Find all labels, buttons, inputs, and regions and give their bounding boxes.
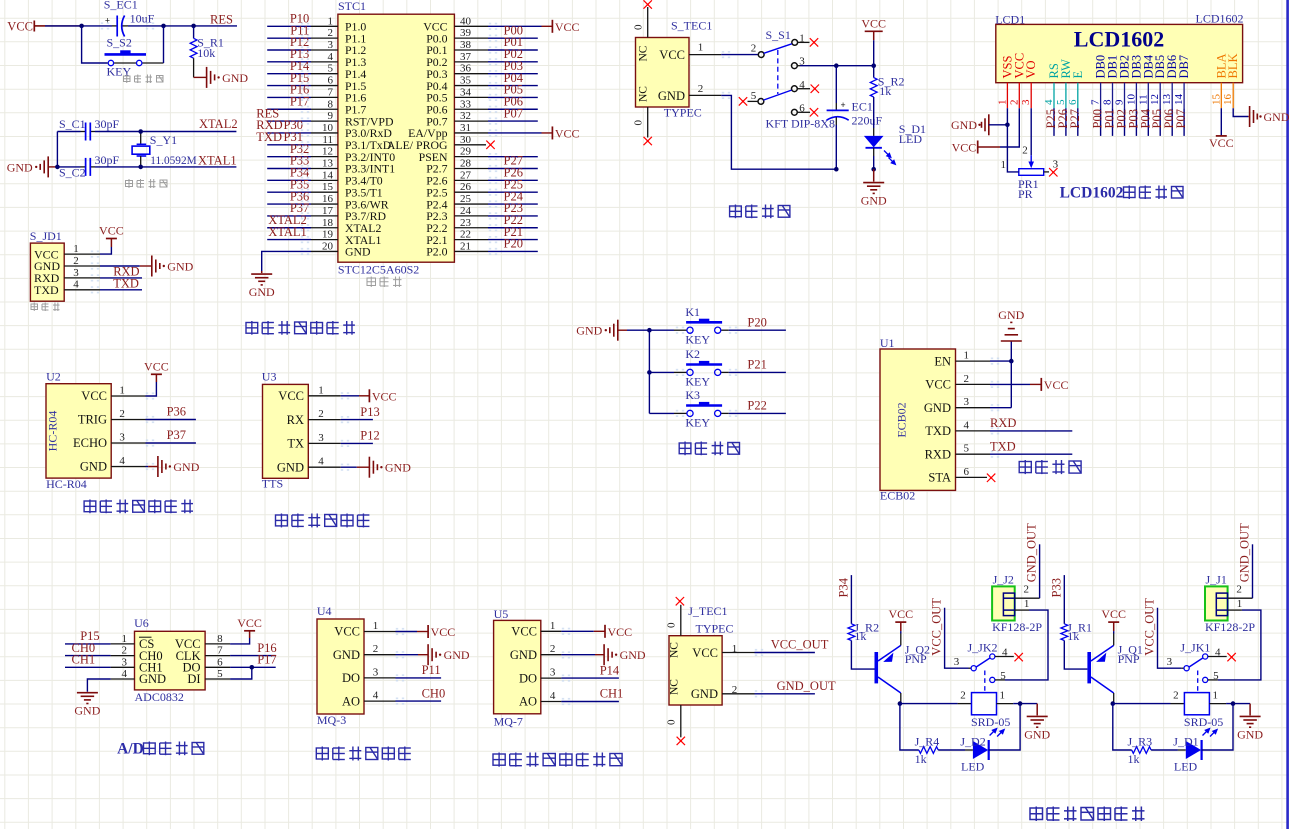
svg-text:K3: K3 bbox=[685, 388, 700, 402]
resistor S_R2 1k bbox=[870, 66, 904, 99]
U1 pin 1 EN wire to GND bbox=[956, 350, 1012, 362]
S_S1 pin 1 no-connect bbox=[797, 33, 818, 47]
resistor J_R4 1k bbox=[915, 735, 965, 766]
svg-text:GND: GND bbox=[333, 648, 360, 662]
svg-text:VCC: VCC bbox=[555, 126, 580, 140]
wire relay coil pin 1 to GND bbox=[1209, 690, 1250, 704]
svg-text:PNP: PNP bbox=[1118, 652, 1140, 666]
svg-text:1k: 1k bbox=[1067, 629, 1079, 643]
junction LED branch bbox=[1018, 701, 1023, 706]
svg-text:P20: P20 bbox=[504, 237, 523, 251]
power port VCC (LCD) bbox=[952, 140, 1000, 154]
STC1 pins 28-21 with net labels P27-P20 bbox=[454, 154, 537, 253]
svg-text:2: 2 bbox=[550, 643, 556, 655]
svg-text:TRIG: TRIG bbox=[78, 413, 107, 427]
svg-text:MQ-3: MQ-3 bbox=[317, 713, 346, 727]
STC1 left pins 1-8 with net labels P10-P17 bbox=[267, 12, 338, 111]
LCD1 net wires pins 4-6 with labels P25 P26 P27 bbox=[1044, 108, 1082, 136]
svg-text:GND: GND bbox=[444, 648, 470, 662]
wire VCC to S_EC1 and RES bbox=[34, 25, 237, 27]
svg-text:35: 35 bbox=[460, 75, 472, 87]
terminal block J_J2 KF128-2P body bbox=[992, 573, 1042, 635]
svg-text:38: 38 bbox=[460, 39, 472, 51]
junction crystal top bbox=[138, 129, 143, 134]
svg-text:RX: RX bbox=[287, 413, 304, 427]
svg-text:TYPEC: TYPEC bbox=[696, 622, 734, 636]
U4 pin 3 wire with net label P11 bbox=[364, 663, 441, 678]
S_S1 pin 3 wire to VCC node bbox=[797, 56, 874, 68]
svg-text:J_D1: J_D1 bbox=[1173, 735, 1198, 749]
svg-text:P21: P21 bbox=[747, 358, 766, 372]
svg-text:2: 2 bbox=[960, 690, 966, 702]
U4 pin 4 wire with net label CH0 bbox=[364, 686, 445, 701]
svg-text:CH1: CH1 bbox=[72, 653, 96, 667]
svg-text:J_J2: J_J2 bbox=[993, 573, 1014, 587]
U6 pin 2 wire with net label CH0 bbox=[65, 641, 135, 657]
LCD1 pin stubs and pin numbers 1-16 bbox=[996, 83, 1234, 109]
svg-text:VCC: VCC bbox=[925, 378, 951, 392]
svg-text:LED: LED bbox=[1174, 760, 1198, 774]
svg-text:4: 4 bbox=[328, 51, 334, 63]
junction DO/DI bbox=[250, 665, 255, 670]
svg-text:EC1: EC1 bbox=[852, 99, 873, 113]
svg-text:TXD: TXD bbox=[990, 439, 1016, 453]
svg-text:KEY: KEY bbox=[685, 332, 710, 346]
svg-text:P33: P33 bbox=[1049, 578, 1063, 597]
svg-text:HC-R04: HC-R04 bbox=[46, 411, 60, 452]
svg-text:TXD: TXD bbox=[34, 283, 59, 297]
svg-text:31: 31 bbox=[460, 122, 471, 134]
U6 pin 6 DO wire with net label P17 bbox=[205, 653, 277, 669]
U3 pin 2 wire with net label P13 bbox=[308, 405, 379, 420]
svg-text:VCC: VCC bbox=[7, 19, 33, 33]
svg-text:3: 3 bbox=[328, 39, 334, 51]
potentiometer PR1 PR bbox=[1001, 145, 1059, 202]
power port VCC (relay J_Q1) bbox=[1101, 607, 1126, 633]
ground GND (relay) bbox=[1024, 704, 1050, 742]
svg-text:U2: U2 bbox=[46, 369, 61, 383]
svg-text:TXD: TXD bbox=[256, 130, 282, 144]
svg-text:A/D: A/D bbox=[117, 741, 144, 758]
svg-text:1: 1 bbox=[964, 350, 970, 362]
power port VCC (alcohol sensor) bbox=[428, 625, 455, 639]
svg-text:2: 2 bbox=[1022, 145, 1028, 157]
wire GND to keys bbox=[627, 329, 649, 331]
svg-text:ADC0832: ADC0832 bbox=[135, 690, 184, 704]
wire XTAL1 net bbox=[140, 166, 236, 168]
LCD1 pin 15 wire to VCC bbox=[1209, 108, 1234, 150]
svg-text:U3: U3 bbox=[262, 370, 277, 384]
junction crystal left bottom bbox=[55, 165, 60, 170]
svg-text:1: 1 bbox=[328, 15, 334, 27]
J_JK2 pin 4 no-connect bbox=[1015, 653, 1023, 661]
svg-text:XTAL2: XTAL2 bbox=[199, 117, 238, 131]
J_JK2 pin 5 wire to J_J2 pin 1 bbox=[995, 610, 1048, 680]
svg-text:27: 27 bbox=[460, 169, 472, 181]
svg-text:2: 2 bbox=[119, 408, 125, 420]
crystal S_Y1 11.0592M bbox=[132, 132, 197, 167]
svg-text:12: 12 bbox=[1149, 94, 1161, 105]
svg-text:S_S2: S_S2 bbox=[107, 36, 132, 50]
svg-text:TX: TX bbox=[287, 437, 304, 451]
svg-text:1k: 1k bbox=[1128, 752, 1140, 766]
svg-text:P37: P37 bbox=[167, 428, 186, 442]
svg-text:NC: NC bbox=[668, 642, 680, 658]
svg-text:LCD1602: LCD1602 bbox=[1060, 184, 1124, 201]
svg-text:STC1: STC1 bbox=[338, 0, 366, 13]
power port VCC (reset circuit) bbox=[7, 19, 34, 33]
svg-text:VCC: VCC bbox=[1209, 136, 1234, 150]
svg-text:PNP: PNP bbox=[905, 652, 927, 666]
svg-text:5: 5 bbox=[217, 668, 223, 680]
wire XTAL2 net bbox=[140, 131, 236, 133]
U2 pin 3 wire with net label P37 bbox=[111, 428, 196, 443]
svg-text:GND: GND bbox=[74, 704, 100, 718]
svg-text:5: 5 bbox=[328, 63, 334, 75]
section title: voice output module (语音输出模块) bbox=[276, 514, 370, 528]
svg-text:STA: STA bbox=[928, 471, 951, 485]
svg-text:VCC: VCC bbox=[1044, 378, 1069, 392]
svg-text:VCC: VCC bbox=[431, 625, 456, 639]
svg-text:4: 4 bbox=[373, 690, 379, 702]
CO sensor U5 MQ-7 body bbox=[494, 607, 541, 729]
svg-text:16: 16 bbox=[322, 193, 334, 205]
U4 pin 1 wire to VCC bbox=[364, 620, 428, 632]
svg-text:GND: GND bbox=[7, 160, 33, 174]
power port VCC (bluetooth) bbox=[1041, 378, 1068, 392]
junction crystal bottom bbox=[138, 165, 143, 170]
J_TEC1 top pin 0 no-connect bbox=[666, 597, 685, 636]
STC1 pin 11 with net labels TXD P31 bbox=[256, 130, 338, 146]
J_J2 pin 2 wire with rotated net label GND_OUT bbox=[1015, 523, 1040, 598]
svg-text:SRD-05: SRD-05 bbox=[971, 715, 1010, 729]
U5 pin 2 wire to GND bbox=[541, 643, 604, 655]
svg-text:P14: P14 bbox=[600, 663, 620, 677]
svg-text:P13: P13 bbox=[360, 405, 379, 419]
svg-text:VCC: VCC bbox=[608, 625, 633, 639]
U1 pin 4 wire with net label RXD bbox=[956, 416, 1073, 431]
U3 pin 1 wire to VCC bbox=[308, 384, 369, 396]
svg-text:7: 7 bbox=[217, 645, 223, 657]
svg-text:U6: U6 bbox=[134, 616, 149, 630]
svg-text:BLK: BLK bbox=[1226, 54, 1240, 79]
svg-text:2: 2 bbox=[73, 255, 79, 267]
ground GND (alcohol sensor) bbox=[428, 644, 470, 665]
svg-text:1k: 1k bbox=[854, 629, 866, 643]
ground GND (ADC) bbox=[74, 692, 100, 718]
svg-text:220uF: 220uF bbox=[852, 113, 883, 127]
svg-text:VCC: VCC bbox=[81, 389, 107, 403]
U6 pin 3 wire with net label CH1 bbox=[65, 653, 135, 669]
svg-text:3: 3 bbox=[954, 656, 960, 668]
alcohol sensor U4 MQ-3 body bbox=[317, 604, 364, 727]
svg-text:E: E bbox=[1071, 71, 1085, 79]
svg-text:J_D2: J_D2 bbox=[960, 735, 985, 749]
svg-text:0: 0 bbox=[633, 120, 645, 126]
LED J_D1 bbox=[1173, 735, 1201, 774]
svg-text:GND: GND bbox=[173, 460, 199, 474]
STC1 left pin names bbox=[345, 20, 395, 259]
svg-text:2: 2 bbox=[698, 83, 704, 95]
svg-text:1k: 1k bbox=[879, 84, 891, 98]
svg-text:S_TEC1: S_TEC1 bbox=[671, 19, 712, 33]
J_TEC1 bottom pin 0 no-connect bbox=[666, 705, 686, 745]
svg-text:11: 11 bbox=[322, 134, 333, 146]
svg-text:P27: P27 bbox=[1068, 109, 1082, 128]
svg-text:4: 4 bbox=[119, 455, 125, 467]
J_JK1 pin 5 wire to J_J1 pin 1 bbox=[1208, 610, 1261, 680]
svg-text:S_Y1: S_Y1 bbox=[150, 133, 177, 147]
svg-text:2: 2 bbox=[1173, 690, 1179, 702]
STC1 pin 20 GND wire bbox=[262, 240, 338, 271]
S_JD1 pin 1 wire to VCC bbox=[64, 243, 111, 255]
svg-text:NC: NC bbox=[668, 679, 680, 695]
relay contact switch J_JK1 bbox=[1167, 641, 1227, 683]
svg-text:VCC: VCC bbox=[144, 359, 169, 373]
svg-text:GND: GND bbox=[345, 245, 371, 259]
svg-text:2: 2 bbox=[373, 643, 379, 655]
power port VCC (ADC) bbox=[237, 616, 262, 638]
svg-text:AO: AO bbox=[342, 694, 360, 708]
svg-text:S_C2: S_C2 bbox=[59, 166, 86, 180]
U5 pin 1 wire to VCC bbox=[541, 620, 605, 632]
svg-text:ECHO: ECHO bbox=[73, 436, 107, 450]
svg-text:1: 1 bbox=[698, 42, 704, 54]
U3 pin 4 wire to GND bbox=[308, 456, 369, 468]
svg-text:RXD: RXD bbox=[990, 416, 1016, 430]
J_TEC1 pin 2 wire with net label GND_OUT bbox=[722, 679, 836, 696]
U5 pin 3 wire with net label P14 bbox=[541, 663, 620, 678]
section title: bluetooth module (蓝牙模块) bbox=[1019, 460, 1081, 474]
capacitor S_C1 30pF bbox=[57, 117, 140, 141]
svg-text:3: 3 bbox=[1167, 656, 1173, 668]
svg-text:RES: RES bbox=[210, 13, 233, 27]
svg-text:10: 10 bbox=[322, 122, 334, 134]
svg-text:6: 6 bbox=[217, 656, 223, 668]
svg-text:GND: GND bbox=[620, 648, 646, 662]
svg-text:PR: PR bbox=[1018, 187, 1033, 201]
PR1 pin 3 no-connect bbox=[1044, 168, 1058, 176]
svg-text:VCC_OUT: VCC_OUT bbox=[771, 638, 829, 652]
svg-text:3: 3 bbox=[73, 267, 79, 279]
svg-text:2: 2 bbox=[751, 43, 757, 55]
ground GND (LCD VSS) bbox=[951, 114, 1007, 135]
svg-text:36: 36 bbox=[460, 63, 472, 75]
svg-text:P2.0: P2.0 bbox=[426, 245, 447, 259]
svg-text:VCC: VCC bbox=[555, 20, 580, 34]
wire J_Q2 collector to relay coil pin 2 bbox=[900, 690, 972, 704]
junction LED branch bbox=[1231, 701, 1236, 706]
ultrasonic module U2 HC-R04 body bbox=[46, 369, 112, 491]
S_JD1 pin 3 wire, net label RXD bbox=[64, 265, 142, 279]
svg-text:30: 30 bbox=[460, 134, 472, 146]
svg-text:17: 17 bbox=[322, 205, 334, 217]
svg-text:ECB02: ECB02 bbox=[880, 489, 915, 503]
svg-text:CH1: CH1 bbox=[600, 687, 624, 701]
U1 pin 3 GND wire bbox=[956, 396, 1012, 408]
J_JK1 pin 4 no-connect bbox=[1227, 653, 1235, 661]
svg-text:8: 8 bbox=[1102, 99, 1114, 105]
svg-text:VCC_OUT: VCC_OUT bbox=[1143, 598, 1157, 656]
svg-text:J_R3: J_R3 bbox=[1128, 735, 1153, 749]
junction LCD GND node bbox=[1005, 123, 1010, 128]
resistor J_R3 1k bbox=[1128, 735, 1178, 766]
svg-text:13: 13 bbox=[322, 158, 334, 170]
net label VCC_OUT (rotated) feeding J_JK1 bbox=[1143, 598, 1182, 669]
switch S_S1 KFT DIP-8X8 bbox=[758, 28, 835, 131]
STC1 pin 40 VCC wire bbox=[454, 15, 552, 27]
wire J_Q1 collector to relay coil pin 2 bbox=[1113, 690, 1185, 704]
svg-text:VCC: VCC bbox=[692, 646, 718, 660]
svg-text:9: 9 bbox=[328, 110, 334, 122]
svg-text:HC-R04: HC-R04 bbox=[46, 477, 87, 491]
wire keys vertical bus bbox=[648, 330, 650, 413]
svg-text:6: 6 bbox=[964, 466, 970, 478]
svg-text:LED: LED bbox=[961, 760, 985, 774]
svg-text:3: 3 bbox=[550, 667, 556, 679]
U6 pin 8 wire to VCC bbox=[205, 633, 250, 645]
U6 pin 4 wire to GND bbox=[87, 668, 134, 692]
svg-text:LED: LED bbox=[899, 132, 923, 146]
svg-text:9: 9 bbox=[1114, 99, 1126, 105]
svg-text:P17: P17 bbox=[290, 94, 309, 108]
svg-text:VCC: VCC bbox=[888, 607, 913, 621]
svg-text:P17: P17 bbox=[257, 653, 276, 667]
svg-text:K2: K2 bbox=[685, 347, 700, 361]
ground GND (CO sensor) bbox=[604, 644, 646, 665]
svg-text:10uF: 10uF bbox=[130, 12, 155, 26]
S_TEC1 top pin 0 no-connect bbox=[633, 0, 652, 37]
svg-text:AO: AO bbox=[519, 695, 537, 709]
svg-text:P20: P20 bbox=[747, 315, 766, 329]
U2 pin 2 wire with net label P36 bbox=[111, 405, 196, 420]
power port VCC (STC pin 40) bbox=[552, 20, 579, 34]
gray note: download port (下载口) bbox=[31, 303, 60, 312]
svg-text:0: 0 bbox=[666, 622, 678, 628]
J_J1 pin 2 wire with rotated net label GND_OUT bbox=[1228, 523, 1253, 598]
push button K3 KEY with net label P22 bbox=[649, 388, 786, 429]
svg-text:U5: U5 bbox=[494, 607, 509, 621]
LCD1 pin 3 wire to potentiometer wiper bbox=[1030, 108, 1032, 155]
svg-text:1: 1 bbox=[318, 384, 324, 396]
relay coil SRD-05 bbox=[971, 693, 1010, 737]
capacitor S_EC1 10uF bbox=[104, 0, 155, 37]
svg-text:GND: GND bbox=[139, 672, 166, 686]
transistor J_Q2 PNP bbox=[876, 634, 930, 704]
svg-text:ECB02: ECB02 bbox=[895, 402, 909, 437]
svg-text:4: 4 bbox=[964, 419, 970, 431]
svg-text:P12: P12 bbox=[360, 429, 379, 443]
svg-text:1: 1 bbox=[1001, 159, 1007, 171]
svg-text:S_S1: S_S1 bbox=[766, 28, 791, 42]
STC1 pin 30 ALE no-connect bbox=[454, 134, 494, 149]
connector S_TEC1 TYPEC body bbox=[636, 19, 713, 120]
gray note: crystal circuit (晶振电路) bbox=[126, 179, 168, 188]
sheet border right edge bbox=[1286, 0, 1289, 829]
svg-text:VCC: VCC bbox=[372, 389, 397, 403]
section title: key circuit (按键电路) bbox=[679, 442, 739, 456]
svg-text:25: 25 bbox=[460, 193, 472, 205]
svg-text:40: 40 bbox=[460, 15, 472, 27]
push button K2 KEY with net label P21 bbox=[649, 347, 786, 388]
svg-text:4: 4 bbox=[318, 456, 324, 468]
resistor J_R1 1k bbox=[1061, 620, 1092, 669]
svg-text:1k: 1k bbox=[915, 752, 927, 766]
section title: CO detection module (一氧化碳检测模块) bbox=[493, 753, 622, 767]
S_S1 dashed link bbox=[777, 50, 779, 94]
microcontroller U STC1 STC12C5A60S2 body bbox=[338, 0, 455, 277]
wire collector junction down to J_R4 bbox=[900, 704, 919, 750]
ground GND (MCU pin 20) bbox=[249, 271, 275, 299]
relay coil SRD-05 bbox=[1184, 693, 1223, 737]
svg-text:39: 39 bbox=[460, 27, 472, 39]
svg-text:2: 2 bbox=[328, 27, 334, 39]
STC1 right pin names bbox=[387, 20, 448, 259]
junction S_R2 top node bbox=[871, 63, 876, 68]
svg-text:GND: GND bbox=[998, 308, 1024, 322]
svg-text:GND: GND bbox=[80, 460, 107, 474]
U5 pin 4 wire with net label CH1 bbox=[541, 687, 624, 702]
junction at RES / S_R1 bbox=[191, 24, 196, 29]
svg-text:12: 12 bbox=[322, 146, 333, 158]
svg-text:MQ-7: MQ-7 bbox=[494, 715, 523, 729]
svg-text:1: 1 bbox=[73, 243, 79, 255]
svg-text:GND: GND bbox=[1237, 727, 1263, 741]
svg-text:P34: P34 bbox=[837, 577, 851, 597]
svg-text:VCC: VCC bbox=[659, 48, 685, 62]
gray note: key reset (按键复位) bbox=[124, 75, 164, 84]
ground GND (power circuit) bbox=[861, 169, 887, 207]
svg-text:GND_OUT: GND_OUT bbox=[777, 679, 836, 693]
svg-text:VCC: VCC bbox=[861, 16, 886, 30]
svg-text:S_EC1: S_EC1 bbox=[104, 0, 138, 12]
S_S1 pin 4 no-connect bbox=[797, 79, 819, 93]
svg-text:8: 8 bbox=[217, 633, 223, 645]
svg-text:J_JK1: J_JK1 bbox=[1180, 641, 1210, 655]
svg-text:VCC: VCC bbox=[99, 224, 124, 238]
svg-text:4: 4 bbox=[1043, 99, 1055, 105]
connector J_TEC1 TYPEC body bbox=[668, 604, 733, 705]
wire crystal left vertical bbox=[56, 132, 58, 167]
svg-text:1: 1 bbox=[1212, 690, 1218, 702]
svg-text:GND: GND bbox=[222, 71, 248, 85]
power port VCC (voice module) bbox=[369, 389, 396, 403]
svg-text:TXD: TXD bbox=[925, 424, 951, 438]
svg-text:VCC: VCC bbox=[278, 389, 304, 403]
junction keys row 2 bbox=[647, 370, 652, 375]
svg-text:J_R4: J_R4 bbox=[915, 735, 940, 749]
svg-text:K1: K1 bbox=[685, 305, 700, 319]
svg-text:3: 3 bbox=[964, 396, 970, 408]
junction collector node J_Q1 bbox=[1111, 701, 1116, 706]
svg-text:GND_OUT: GND_OUT bbox=[1237, 523, 1251, 582]
J_J1 pin 1 wire bbox=[1228, 598, 1243, 610]
svg-text:32: 32 bbox=[460, 110, 471, 122]
LCD1 pin 1 wire bbox=[1006, 108, 1008, 125]
svg-text:1: 1 bbox=[119, 385, 125, 397]
terminal block J_J1 KF128-2P body bbox=[1205, 573, 1255, 635]
wire LCD GND to PR1 pin 1 bbox=[1007, 125, 1018, 172]
svg-text:RXD: RXD bbox=[925, 447, 951, 461]
svg-text:3: 3 bbox=[373, 666, 379, 678]
svg-text:28: 28 bbox=[460, 158, 472, 170]
svg-text:4: 4 bbox=[73, 279, 79, 291]
U1 pin 2 VCC wire bbox=[956, 373, 1042, 385]
U6 pin 1 wire with net label P15 bbox=[65, 629, 135, 645]
svg-text:GND: GND bbox=[576, 324, 602, 338]
svg-text:37: 37 bbox=[460, 51, 472, 63]
net label P34 (rotated) bbox=[837, 575, 852, 624]
